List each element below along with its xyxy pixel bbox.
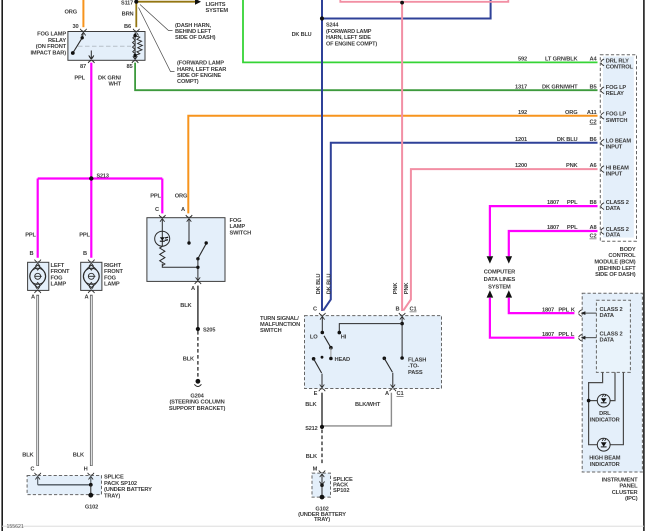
svg-text:A: A: [85, 294, 89, 300]
svg-text:COMPUTER: COMPUTER: [484, 270, 515, 276]
svg-text:B6: B6: [124, 24, 131, 30]
svg-text:MODULE (BCM): MODULE (BCM): [594, 260, 635, 266]
svg-text:ORG: ORG: [64, 10, 77, 16]
svg-text:(FORWARD LAMP: (FORWARD LAMP: [326, 29, 372, 35]
svg-text:BLK: BLK: [306, 454, 318, 460]
svg-text:A4: A4: [590, 57, 598, 63]
svg-text:LIGHTS: LIGHTS: [206, 2, 226, 8]
svg-text:PANEL: PANEL: [619, 484, 638, 490]
svg-text:A: A: [31, 294, 35, 300]
svg-text:WHT: WHT: [109, 82, 122, 88]
svg-text:OF ENGINE COMPT): OF ENGINE COMPT): [326, 41, 377, 47]
svg-text:(FORWARD LAMP: (FORWARD LAMP: [177, 61, 224, 67]
svg-text:SYSTEM: SYSTEM: [488, 285, 511, 291]
svg-text:B: B: [30, 251, 34, 257]
svg-text:(BEHIND LEFT: (BEHIND LEFT: [598, 266, 636, 272]
svg-text:FOG LAMP: FOG LAMP: [37, 32, 66, 38]
svg-text:BLK: BLK: [180, 303, 192, 309]
svg-text:1317: 1317: [515, 84, 527, 90]
svg-text:B: B: [83, 251, 87, 257]
svg-text:G204: G204: [190, 394, 204, 400]
svg-text:IMPACT BAR): IMPACT BAR): [30, 50, 66, 56]
svg-text:HARN, LEFT REAR: HARN, LEFT REAR: [177, 67, 226, 73]
svg-text:BEHIND LEFT: BEHIND LEFT: [175, 29, 212, 35]
svg-text:CONTROL: CONTROL: [608, 253, 636, 259]
svg-text:TRAY): TRAY): [314, 517, 330, 523]
svg-text:HI BEAM: HI BEAM: [606, 165, 629, 171]
svg-text:PPL: PPL: [558, 307, 569, 313]
svg-text:PPL: PPL: [79, 232, 90, 238]
svg-text:E: E: [314, 391, 318, 397]
svg-text:1807: 1807: [542, 307, 554, 313]
svg-text:BLK: BLK: [183, 357, 195, 363]
svg-text:(UNDER BATTERY: (UNDER BATTERY: [104, 487, 152, 493]
svg-text:A11: A11: [587, 110, 597, 116]
svg-text:C2: C2: [590, 234, 597, 240]
svg-text:PNK: PNK: [566, 163, 579, 169]
svg-text:30: 30: [72, 24, 78, 30]
svg-text:SWITCH: SWITCH: [230, 230, 252, 236]
svg-text:FRONT: FRONT: [51, 269, 71, 275]
svg-text:SIDE OF ENGINE: SIDE OF ENGINE: [177, 73, 221, 79]
svg-text:S205: S205: [203, 328, 215, 334]
svg-text:(STEERING COLUMN: (STEERING COLUMN: [169, 400, 224, 406]
svg-text:HARN, LEFT SIDE: HARN, LEFT SIDE: [326, 35, 371, 41]
svg-text:SWITCH: SWITCH: [606, 118, 628, 124]
svg-text:B5: B5: [590, 84, 597, 90]
svg-text:FOG: FOG: [230, 218, 243, 224]
svg-text:HEAD: HEAD: [335, 357, 351, 363]
svg-text:INPUT: INPUT: [606, 145, 623, 151]
svg-text:DK BLU: DK BLU: [557, 137, 578, 143]
svg-text:BRN: BRN: [122, 12, 134, 18]
svg-text:ORG: ORG: [175, 193, 188, 199]
svg-text:TURN SIGNAL/: TURN SIGNAL/: [260, 316, 299, 322]
svg-text:C: C: [313, 307, 317, 313]
svg-text:A: A: [181, 207, 185, 213]
svg-text:SPLICE: SPLICE: [104, 475, 124, 481]
svg-text:B6: B6: [590, 137, 597, 143]
svg-text:DK BLU: DK BLU: [292, 32, 312, 38]
svg-text:C: C: [155, 207, 159, 213]
svg-text:DRL: DRL: [599, 411, 611, 417]
svg-text:DK BLU: DK BLU: [316, 274, 322, 295]
svg-text:87: 87: [80, 64, 86, 70]
svg-text:G102: G102: [85, 504, 98, 510]
svg-text:RELAY: RELAY: [48, 38, 66, 44]
svg-text:SP102: SP102: [333, 488, 349, 494]
svg-text:-TO-: -TO-: [408, 364, 419, 370]
svg-text:LAMP: LAMP: [230, 224, 246, 230]
svg-text:SIDE OF DASH): SIDE OF DASH): [595, 272, 636, 278]
svg-text:CLASS 2: CLASS 2: [600, 307, 623, 313]
svg-text:C: C: [30, 467, 34, 473]
svg-text:INDICATOR: INDICATOR: [590, 462, 620, 468]
svg-text:LAMP: LAMP: [51, 282, 67, 288]
svg-text:PPL: PPL: [74, 75, 85, 81]
svg-text:HI: HI: [341, 335, 347, 341]
svg-text:RIGHT: RIGHT: [104, 263, 122, 269]
svg-text:DATA: DATA: [600, 313, 614, 319]
svg-text:(ON FRONT: (ON FRONT: [36, 44, 67, 50]
svg-text:BODY: BODY: [620, 247, 636, 253]
svg-text:DATA: DATA: [606, 233, 620, 239]
svg-text:85: 85: [126, 64, 132, 70]
svg-text:DK GRN/WHT: DK GRN/WHT: [542, 84, 578, 90]
svg-text:A: A: [191, 286, 195, 292]
svg-text:M: M: [313, 467, 318, 473]
svg-text:192: 192: [518, 110, 527, 116]
svg-text:CLUSTER: CLUSTER: [612, 490, 638, 496]
svg-text:S244: S244: [326, 23, 339, 29]
svg-text:DATA: DATA: [606, 206, 620, 212]
svg-text:PPL: PPL: [558, 332, 569, 338]
svg-text:DRL RLY: DRL RLY: [606, 58, 629, 64]
svg-text:BLK: BLK: [22, 452, 34, 458]
svg-text:1201: 1201: [515, 137, 527, 143]
svg-text:H: H: [84, 467, 88, 473]
svg-text:BLK/WHT: BLK/WHT: [355, 402, 381, 408]
svg-text:LAMP: LAMP: [104, 282, 120, 288]
svg-text:1807: 1807: [542, 332, 554, 338]
svg-text:A6: A6: [590, 163, 597, 169]
svg-text:TRAY): TRAY): [104, 493, 120, 499]
svg-text:DATA LINES: DATA LINES: [484, 277, 516, 283]
svg-text:A: A: [385, 391, 389, 397]
svg-text:DATA: DATA: [600, 338, 614, 344]
svg-text:S117: S117: [121, 1, 133, 7]
svg-text:HIGH BEAM: HIGH BEAM: [589, 456, 621, 462]
svg-text:C2: C2: [590, 119, 597, 125]
svg-text:SIDE OF DASH): SIDE OF DASH): [175, 35, 216, 41]
svg-text:C1: C1: [410, 307, 417, 313]
svg-text:BLK: BLK: [73, 452, 85, 458]
svg-text:FOG LP: FOG LP: [606, 112, 627, 118]
svg-text:FOG: FOG: [104, 275, 117, 281]
svg-text:INSTRUMENT: INSTRUMENT: [602, 477, 638, 483]
svg-text:S212: S212: [305, 426, 317, 432]
svg-text:INPUT: INPUT: [606, 171, 623, 177]
svg-text:CLASS 2: CLASS 2: [606, 200, 629, 206]
svg-text:CLASS 2: CLASS 2: [600, 332, 623, 338]
svg-text:SWITCH: SWITCH: [260, 328, 282, 334]
svg-text:PASS: PASS: [408, 370, 423, 376]
svg-text:FRONT: FRONT: [104, 269, 124, 275]
svg-text:INDICATOR: INDICATOR: [590, 417, 620, 423]
svg-text:PNK: PNK: [393, 282, 399, 295]
svg-text:1200: 1200: [515, 163, 527, 169]
svg-text:(DASH HARN,: (DASH HARN,: [175, 23, 212, 29]
svg-text:LT GRN/BLK: LT GRN/BLK: [545, 57, 579, 63]
svg-text:CONTROL: CONTROL: [606, 64, 634, 70]
svg-text:LEFT: LEFT: [51, 263, 65, 269]
svg-text:592: 592: [518, 57, 527, 63]
svg-text:S213: S213: [97, 173, 109, 179]
svg-text:PPL: PPL: [150, 193, 161, 199]
svg-text:BLK: BLK: [305, 402, 317, 408]
svg-text:COMPT): COMPT): [177, 79, 199, 85]
svg-text:155621: 155621: [7, 524, 24, 530]
svg-text:FOG: FOG: [51, 275, 64, 281]
svg-text:DK BLU: DK BLU: [326, 274, 332, 295]
svg-text:RELAY: RELAY: [606, 91, 624, 97]
svg-text:DK GRN/: DK GRN/: [98, 75, 122, 81]
svg-text:ORG: ORG: [565, 110, 578, 116]
svg-text:C1: C1: [397, 391, 404, 397]
svg-text:FLASH: FLASH: [408, 358, 426, 364]
svg-text:B: B: [396, 307, 400, 313]
svg-text:LO: LO: [310, 335, 318, 341]
svg-text:PNK: PNK: [404, 282, 410, 295]
svg-text:SUPPORT BRACKET): SUPPORT BRACKET): [169, 406, 226, 412]
svg-text:SYSTEM: SYSTEM: [206, 8, 229, 14]
svg-text:(IPC): (IPC): [625, 496, 638, 502]
svg-text:PACK SP102: PACK SP102: [104, 481, 137, 487]
svg-text:PPL: PPL: [25, 232, 36, 238]
svg-text:MALFUNCTION: MALFUNCTION: [260, 322, 300, 328]
